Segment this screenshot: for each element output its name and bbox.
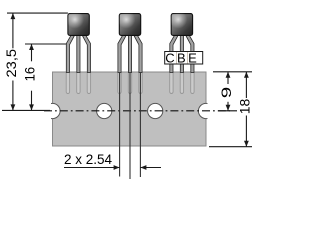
arrow 2.54 left	[140, 165, 146, 170]
sprocket hole H1 (half, left edge)	[45, 103, 60, 118]
dim line 9	[227, 72, 229, 84]
svg-text:2 x 2.54: 2 x 2.54	[64, 152, 113, 167]
dim line 18	[245, 72, 247, 98]
dim line 2x2.54 left part	[64, 167, 120, 169]
arrow 9 up	[226, 72, 231, 78]
arrow 23.5 up	[11, 13, 16, 19]
tape centerline (dash-dot)	[44, 110, 230, 112]
sprocket hole H4 (half, right edge)	[198, 103, 213, 118]
arrow 23.5 down	[11, 104, 16, 110]
ext line lead shoulder (16 ref)	[25, 43, 67, 45]
svg-text:E: E	[188, 50, 197, 65]
svg-text:B: B	[177, 50, 186, 65]
dimension graphics	[2, 13, 252, 167]
arrow 18 down	[244, 141, 249, 147]
dim line 2x2.54 right part	[140, 167, 161, 169]
transistor Q3 body	[171, 14, 192, 36]
svg-text:18: 18	[238, 99, 253, 115]
leads below tape Q1	[66, 73, 194, 94]
leads below tape Q3	[170, 73, 173, 94]
svg-text:23,5: 23,5	[4, 49, 19, 78]
ext line tape bottom right	[209, 146, 252, 148]
extension lines for 2 x 2.54 through tape	[120, 72, 141, 179]
transistor Q2 leads	[118, 35, 142, 73]
ext line top of body (23.5 ref)	[7, 12, 68, 14]
arrow 2.54 right	[114, 165, 120, 170]
ext line tape top right (9/18 ref)	[213, 71, 252, 73]
transistor Q1 leads	[66, 35, 90, 73]
ext line at centerline left	[2, 109, 50, 111]
sprocket hole H2	[97, 103, 112, 118]
arrow 16 up	[29, 44, 34, 50]
pinout box dividers	[176, 52, 178, 64]
leads below tape Q2	[118, 73, 121, 94]
svg-text:9: 9	[219, 87, 234, 99]
svg-text:C: C	[165, 50, 174, 65]
sprocket holes (clipped to tape)	[45, 103, 214, 118]
transistor Q2 body	[119, 14, 140, 36]
arrowheads	[11, 13, 249, 170]
arrow 16 down	[29, 104, 34, 110]
dim line 16	[31, 44, 33, 61]
pinout label box C B E	[165, 52, 203, 65]
transistor Q3 leads	[170, 35, 194, 73]
sprocket hole H3	[148, 103, 163, 118]
arrow 9 down	[226, 105, 231, 111]
svg-text:16: 16	[23, 67, 38, 82]
arrow 18 up	[244, 72, 249, 78]
transistor Q1 body	[68, 14, 89, 36]
dim line 23.5	[12, 13, 14, 48]
carrier tape	[53, 72, 207, 146]
